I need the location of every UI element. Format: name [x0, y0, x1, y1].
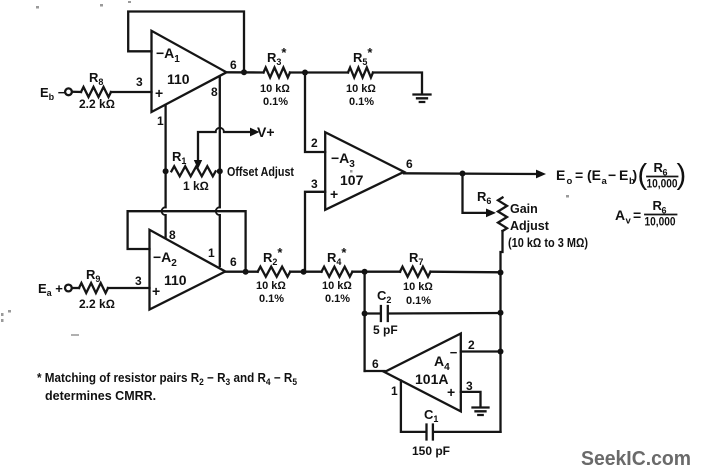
- node Ea input label: [38, 281, 63, 298]
- wire V+ supply with arrow: [198, 132, 216, 162]
- svg-text:v: v: [626, 216, 632, 227]
- svg-text:Eb −: Eb −: [40, 85, 66, 102]
- svg-text:=: =: [575, 167, 583, 183]
- svg-text:* Matching of resistor pairs R: * Matching of resistor pairs R2 − R3 and…: [37, 371, 297, 387]
- resistor R2: [258, 267, 291, 277]
- svg-text:10 kΩ: 10 kΩ: [346, 83, 376, 95]
- arrowhead R6 wiper: [486, 209, 496, 218]
- wire R6 bottom to right bus: [501, 231, 503, 432]
- svg-text:R1: R1: [172, 149, 186, 166]
- pin 2 label A4: [468, 338, 475, 352]
- svg-text:2: 2: [311, 136, 318, 150]
- wire R8 to A1 pin 3: [111, 91, 152, 93]
- svg-text:−A3: −A3: [331, 150, 355, 170]
- wire R2 to R4: [290, 271, 321, 273]
- svg-text:10,000: 10,000: [647, 177, 678, 191]
- resistor R3: [264, 68, 291, 78]
- node C2 right junction: [498, 310, 504, 316]
- svg-text:a: a: [602, 176, 608, 187]
- svg-text:1: 1: [157, 114, 164, 128]
- svg-text:101A: 101A: [415, 371, 448, 387]
- svg-text:Adjust: Adjust: [510, 219, 550, 233]
- svg-text:1: 1: [208, 246, 215, 260]
- svg-text:10 kΩ: 10 kΩ: [256, 280, 286, 292]
- svg-text:R6: R6: [477, 189, 491, 206]
- resistor R4: [322, 267, 353, 277]
- wire A2 output to R2: [225, 271, 257, 273]
- svg-text:R4*: R4*: [327, 245, 347, 267]
- wire A4 pin1 down to C1: [401, 381, 426, 432]
- svg-text:0.1%: 0.1%: [406, 295, 431, 307]
- svg-text:R8: R8: [89, 70, 103, 87]
- note matching resistors: [37, 371, 297, 403]
- svg-text:10 kΩ: 10 kΩ: [322, 280, 352, 292]
- wire R3 to R5: [290, 71, 348, 73]
- svg-text:−A2: −A2: [153, 249, 177, 269]
- node A2 output junction: [243, 269, 249, 275]
- wire terminal to R9: [72, 287, 79, 289]
- svg-text:+: +: [330, 186, 338, 202]
- node output junction: [460, 171, 466, 177]
- wire A1 feedback loop: [128, 12, 244, 73]
- svg-text:110: 110: [167, 71, 190, 87]
- node R2/R4 junction: [301, 269, 307, 275]
- svg-text:): ): [633, 167, 638, 183]
- svg-text:8: 8: [211, 85, 218, 99]
- fraction bar Av: [645, 214, 677, 216]
- svg-text:6: 6: [230, 255, 237, 269]
- pin 1 label A1: [157, 114, 164, 128]
- resistor R8: [81, 87, 111, 97]
- node R4/R7/C2 junction: [362, 269, 368, 275]
- svg-text:E: E: [619, 167, 628, 183]
- resistor R1 (offset pot): [171, 166, 215, 176]
- wire A4 pin3 to ground: [461, 392, 481, 407]
- resistor R5: [348, 68, 373, 78]
- scan noise marks: [1, 1, 569, 336]
- equation Eo: [556, 159, 686, 191]
- svg-text:V+: V+: [257, 124, 275, 140]
- node R7/bus junction: [498, 270, 504, 276]
- node R1 left: [163, 168, 169, 174]
- fraction bar Eo: [647, 176, 678, 178]
- svg-text:1 kΩ: 1 kΩ: [183, 179, 209, 193]
- wire output node to R6 wiper: [463, 174, 488, 213]
- wire terminal to R8: [72, 91, 81, 93]
- svg-text:0.1%: 0.1%: [263, 96, 288, 108]
- svg-text:110: 110: [164, 272, 187, 288]
- svg-text:8: 8: [169, 228, 176, 242]
- pin 8 label A2: [169, 228, 176, 242]
- svg-text:0.1%: 0.1%: [259, 293, 284, 305]
- svg-text:=: =: [633, 207, 641, 223]
- svg-text:10,000: 10,000: [645, 215, 676, 229]
- wire A3 pin2 from R3/R5 node: [305, 73, 325, 153]
- node R1 right: [217, 168, 223, 174]
- arrowhead Eo: [536, 170, 546, 179]
- svg-text:SeekIC.com: SeekIC.com: [581, 448, 691, 470]
- svg-text:determines CMRR.: determines CMRR.: [45, 389, 156, 403]
- input terminal Ea: [65, 285, 72, 292]
- wire A4 output pin 6: [365, 370, 385, 372]
- wire A2 feedback loop: [128, 211, 246, 271]
- svg-text:0.1%: 0.1%: [349, 96, 374, 108]
- resistor R7: [400, 267, 431, 277]
- pin 1 label A2: [208, 246, 215, 260]
- op-amp A3: [325, 132, 404, 210]
- wire A1 pin1 down to A2 pin8: [164, 105, 166, 238]
- ground (A4 pin 3): [473, 408, 489, 416]
- svg-text:R2*: R2*: [263, 245, 283, 267]
- equation Av: [615, 198, 676, 229]
- input terminal Eb: [65, 88, 72, 95]
- svg-text:o: o: [567, 176, 573, 187]
- svg-text:10 kΩ: 10 kΩ: [403, 281, 433, 293]
- node Eb input label: [40, 85, 66, 102]
- pin 3 label A3: [311, 177, 318, 191]
- wire A4 pin2 to right bus: [461, 350, 501, 352]
- pin 6 label A4: [372, 357, 379, 371]
- svg-text:E: E: [556, 167, 565, 183]
- svg-text:3: 3: [136, 75, 143, 89]
- svg-text:R5*: R5*: [353, 45, 373, 67]
- wire A3 pin3 from R2/R4 node: [305, 192, 325, 272]
- svg-text:0.1%: 0.1%: [325, 293, 350, 305]
- wire R4 to R7: [352, 271, 400, 273]
- pin 8 label A1: [211, 85, 218, 99]
- node A1 output junction: [241, 69, 247, 75]
- pin 3 label A4: [466, 379, 473, 393]
- svg-text:R9: R9: [86, 267, 100, 284]
- svg-text:+: +: [447, 384, 455, 400]
- svg-text:−A1: −A1: [156, 45, 180, 65]
- pin 6 label A2: [230, 255, 237, 269]
- svg-text:(E: (E: [587, 167, 601, 183]
- svg-text:2.2 kΩ: 2.2 kΩ: [79, 97, 115, 111]
- capacitor C2: [365, 306, 501, 321]
- svg-text:A4−: A4−: [434, 345, 458, 373]
- resistor R9: [79, 283, 108, 293]
- svg-text:3: 3: [311, 177, 318, 191]
- svg-text:C1: C1: [424, 407, 438, 424]
- wire R4 node down to C2 and A4 output: [363, 272, 365, 371]
- op-amp A2: [150, 230, 226, 310]
- svg-text:Offset Adjust: Offset Adjust: [227, 165, 295, 179]
- svg-text:A: A: [615, 207, 625, 223]
- svg-text:6: 6: [372, 357, 379, 371]
- potentiometer R6: [498, 198, 507, 232]
- op-amp A4 (points left): [385, 334, 461, 412]
- wire R9 to A2 pin 3: [108, 287, 150, 289]
- node C2 left junction: [362, 311, 368, 317]
- svg-text:150 pF: 150 pF: [412, 444, 450, 458]
- node pin2/bus junction: [498, 349, 504, 355]
- op-amp A1: [152, 31, 227, 112]
- svg-text:6: 6: [230, 58, 237, 72]
- node R3/R5 junction: [302, 70, 308, 76]
- capacitor C1: [427, 425, 501, 440]
- svg-text:10 kΩ: 10 kΩ: [260, 83, 290, 95]
- svg-text:R3*: R3*: [267, 45, 287, 67]
- svg-text:): ): [677, 159, 687, 191]
- pin 1 label A4: [391, 384, 398, 398]
- pin 2 label A3: [311, 136, 318, 150]
- wire A1 output to R3: [227, 71, 264, 73]
- wire A1 pin8 down to A2 pin1: [219, 77, 221, 267]
- svg-text:Gain: Gain: [510, 202, 538, 216]
- svg-text:−: −: [608, 167, 616, 183]
- svg-text:R7: R7: [409, 250, 423, 267]
- svg-text:+: +: [152, 283, 160, 299]
- watermark SeekIC.com: [581, 448, 691, 470]
- pin 6 label A3: [406, 157, 413, 171]
- svg-text:(10 kΩ to 3 MΩ): (10 kΩ to 3 MΩ): [508, 236, 588, 250]
- wire A3 output to Eo arrow: [404, 172, 537, 175]
- svg-text:Ea +: Ea +: [38, 281, 63, 298]
- svg-text:5 pF: 5 pF: [373, 323, 398, 337]
- svg-text:C2: C2: [377, 288, 391, 305]
- svg-text:2: 2: [468, 338, 475, 352]
- svg-text:107: 107: [340, 172, 364, 188]
- pin 3 label A1: [136, 75, 143, 89]
- pin 3 label A2: [135, 274, 142, 288]
- svg-text:1: 1: [391, 384, 398, 398]
- arrowhead wiper onto R1: [194, 160, 202, 169]
- wire R7 to right bus: [431, 271, 501, 274]
- svg-text:3: 3: [135, 274, 142, 288]
- svg-text:2.2 kΩ: 2.2 kΩ: [79, 297, 115, 311]
- svg-text:6: 6: [406, 157, 413, 171]
- pin 6 label A1: [230, 58, 237, 72]
- arrowhead V+: [250, 128, 260, 137]
- ground (right of R5): [414, 95, 431, 103]
- svg-text:+: +: [155, 85, 163, 101]
- wire R5 to ground: [373, 73, 422, 95]
